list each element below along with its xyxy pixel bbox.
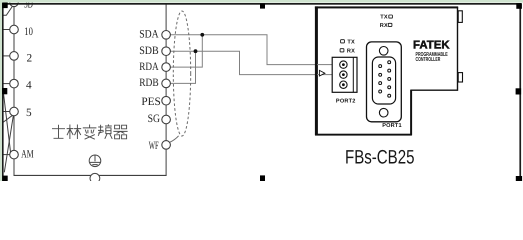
terminal circle top (3D, clipped) <box>10 0 19 7</box>
top-left diagonal wire <box>3 5 14 15</box>
junction dot on SDB wire <box>194 49 198 53</box>
svg-text:PES: PES <box>141 96 160 108</box>
board step vertical thick <box>410 90 412 135</box>
leader line WF to cable group <box>170 136 179 142</box>
char 林 <box>67 125 82 140</box>
diagonal wire D2 from terminal 5 to left edge <box>3 115 13 122</box>
char 变 <box>83 125 97 140</box>
DB9 pins right column <box>388 61 391 97</box>
selection handle bottom-left <box>3 176 8 181</box>
terminal circle RDA <box>162 63 171 72</box>
tick to terminal 5 <box>4 111 10 113</box>
selection handle right-middle <box>516 88 522 94</box>
terminal circle SDA <box>162 31 171 40</box>
svg-text:10: 10 <box>24 26 33 38</box>
FBs-CB25 board outline <box>316 7 457 134</box>
svg-text:SG: SG <box>148 113 160 125</box>
diagonal wire D3 from left edge to terminal AM <box>3 88 11 153</box>
terminal circle PES <box>162 96 171 105</box>
top LED square RX <box>388 23 392 26</box>
svg-text:5: 5 <box>26 107 32 119</box>
inverter name 士林变频器 (drawn strokes) <box>52 124 128 139</box>
DB9 screw hole bottom <box>379 108 388 117</box>
svg-text:SDA: SDA <box>139 29 159 41</box>
svg-text:4: 4 <box>26 80 32 92</box>
wire jumper SDB-RDB <box>170 51 195 83</box>
terminal circle WF <box>162 141 171 150</box>
DB9 connector PORT1 outer shell <box>367 42 402 122</box>
page background <box>0 0 523 181</box>
terminal circle 10 <box>10 25 19 34</box>
wire jumper SDA-RDA <box>170 35 202 67</box>
wire W2 SDB to PORT2 terminal 2 <box>170 51 332 74</box>
board left edge thick <box>315 6 318 135</box>
PORT2 terminal block body <box>332 57 357 92</box>
PORT2 terminal 3 <box>340 81 347 88</box>
svg-text:SDB: SDB <box>139 45 159 57</box>
svg-text:FATEK: FATEK <box>413 39 450 51</box>
terminal circle SDB <box>162 47 171 56</box>
DB9 face <box>372 57 395 104</box>
wire W1 SDA to PORT2 terminal 1 <box>170 35 332 65</box>
svg-text:RDB: RDB <box>139 77 159 89</box>
terminal circle 2 <box>10 52 19 61</box>
terminal circle SG <box>162 115 171 124</box>
terminal circle RDB <box>162 79 171 88</box>
port2 LED square RX <box>340 49 344 52</box>
inverter left terminal bus <box>13 3 15 175</box>
char 频 <box>98 124 112 138</box>
PORT2 terminal block divider <box>352 57 354 92</box>
selection handle bottom-middle <box>260 175 265 181</box>
earth ground symbol <box>89 155 101 167</box>
mounting tab lower right <box>458 73 462 82</box>
svg-text:PORT2: PORT2 <box>336 98 356 104</box>
dashed cable-group ellipse <box>173 11 190 136</box>
terminal circle 4 <box>10 79 19 88</box>
image frame border top <box>2 3 521 5</box>
junction dot on SDA wire <box>200 33 204 37</box>
DB9 pins left column <box>379 65 382 93</box>
char 器 <box>113 125 127 139</box>
terminal circle AM <box>10 150 19 159</box>
svg-text:CONTROLLER: CONTROLLER <box>416 57 441 63</box>
pin1 arrow marker <box>319 70 325 76</box>
PORT2 terminal 2 <box>340 71 347 78</box>
svg-text:TX: TX <box>380 15 388 21</box>
svg-text:WF: WF <box>149 140 159 152</box>
green margin strip top <box>0 0 523 3</box>
svg-text:2: 2 <box>27 52 33 64</box>
bottom terminal circle on inverter box edge <box>90 173 100 183</box>
green margin strip left <box>0 0 2 181</box>
board bottom edge thick <box>315 134 412 136</box>
port2 LED square TX <box>341 40 345 43</box>
selection handle top-left <box>2 3 8 9</box>
PORT2 terminal 1 <box>340 61 347 68</box>
svg-text:RX: RX <box>380 23 388 29</box>
terminal circle 5 <box>10 107 19 116</box>
wire W2 segment inside board <box>317 74 333 76</box>
tick to terminal 4 <box>4 83 10 85</box>
svg-text:AM: AM <box>21 149 33 161</box>
inverter box bottom edge <box>14 174 167 176</box>
top LED square TX <box>389 15 393 18</box>
char 士 <box>52 125 65 139</box>
mounting tab upper right <box>458 11 462 23</box>
tick to terminal 2 <box>4 55 10 57</box>
DB9 screw hole top <box>379 47 388 56</box>
selection handle bottom-right <box>516 176 522 181</box>
svg-text:TX: TX <box>347 39 355 45</box>
inverter right terminal bus <box>165 3 167 175</box>
svg-text:RDA: RDA <box>139 61 159 73</box>
tick to terminal AM <box>4 154 10 156</box>
selection handle top-middle <box>260 4 265 9</box>
tick to terminal 10 <box>4 29 10 31</box>
selection handle left-middle <box>2 88 7 94</box>
svg-text:FBs-CB25: FBs-CB25 <box>345 147 415 169</box>
wire W1 segment inside board <box>317 64 333 66</box>
svg-text:RX: RX <box>347 48 355 54</box>
image frame border right <box>519 3 521 181</box>
diagonal wire D1 from terminal 5 to bottom-left <box>4 116 13 173</box>
selection handle top-right <box>516 3 522 9</box>
board top edge thick <box>315 6 458 8</box>
image frame border left <box>2 3 4 181</box>
svg-text:PORT1: PORT1 <box>382 123 402 129</box>
